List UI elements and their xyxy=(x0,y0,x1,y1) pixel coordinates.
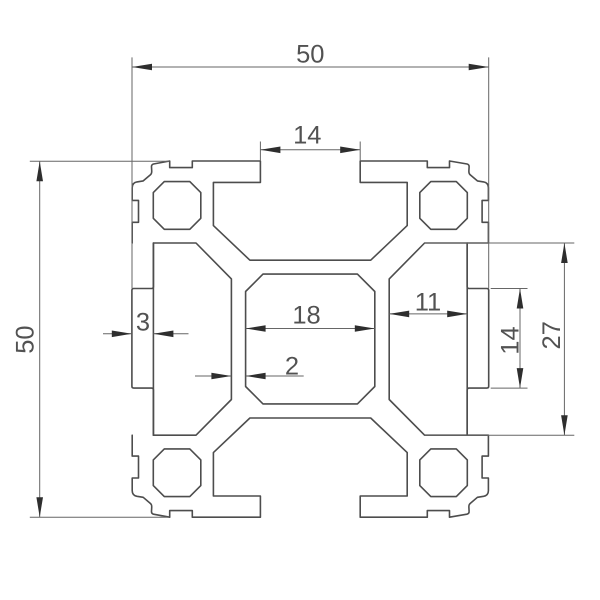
dimension 50 top: extension lines, dimension line, arrows, text xyxy=(132,57,489,288)
dimension 14 top slot opening xyxy=(260,142,360,161)
svg-text:27: 27 xyxy=(538,321,566,349)
central octagonal bore (18 mm) xyxy=(246,274,375,404)
svg-text:3: 3 xyxy=(136,308,150,336)
svg-text:50: 50 xyxy=(296,41,324,69)
svg-text:2: 2 xyxy=(285,352,299,380)
svg-text:14: 14 xyxy=(293,121,321,149)
svg-text:14: 14 xyxy=(496,326,524,354)
corner screw bore top-right xyxy=(420,182,468,230)
dimension 14 right tongue height (vertical, rotated text) xyxy=(491,289,528,389)
svg-text:11: 11 xyxy=(415,289,441,317)
corner screw bore bottom-left xyxy=(153,449,201,497)
corner screw bore top-left xyxy=(153,182,201,230)
dimension 2 central wall thickness xyxy=(195,375,304,377)
dimension 50 left side (vertical, rotated text) xyxy=(30,161,169,517)
right inner cavity xyxy=(389,243,467,435)
corner screw bore bottom-right xyxy=(420,449,468,497)
left inner cavity xyxy=(153,243,231,435)
dimension 27 right distance between corner blocks (vertical, rotated text) xyxy=(425,243,575,435)
profile outer contour with T-slots, corner serrations, grooves and notches xyxy=(132,161,489,517)
dimension 18 central bore width xyxy=(246,328,375,330)
dimension 3 left recess depth xyxy=(103,333,189,335)
svg-text:18: 18 xyxy=(292,302,320,330)
svg-text:50: 50 xyxy=(12,325,40,353)
dimension 11 right cavity width xyxy=(389,313,467,315)
